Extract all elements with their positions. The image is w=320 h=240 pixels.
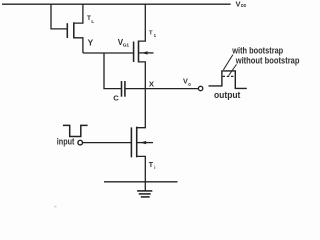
svg-text:with bootstrap: with bootstrap (231, 46, 283, 56)
svg-text:C: C (113, 94, 119, 103)
svg-text:T: T (149, 162, 154, 169)
svg-text:X: X (149, 79, 155, 88)
svg-text:V: V (183, 76, 188, 85)
svg-text:G1: G1 (123, 43, 130, 49)
svg-text:V: V (236, 0, 241, 8)
svg-text:T: T (149, 30, 153, 36)
svg-text:T: T (87, 15, 91, 22)
svg-text:0: 0 (188, 82, 191, 87)
svg-text:DD: DD (241, 3, 247, 9)
svg-text:L: L (91, 19, 94, 24)
svg-text:Y: Y (88, 38, 94, 48)
svg-text:i: i (154, 165, 155, 170)
svg-text:output: output (214, 90, 240, 100)
svg-text:without bootstrap: without bootstrap (235, 56, 300, 66)
svg-text:input: input (57, 137, 75, 147)
